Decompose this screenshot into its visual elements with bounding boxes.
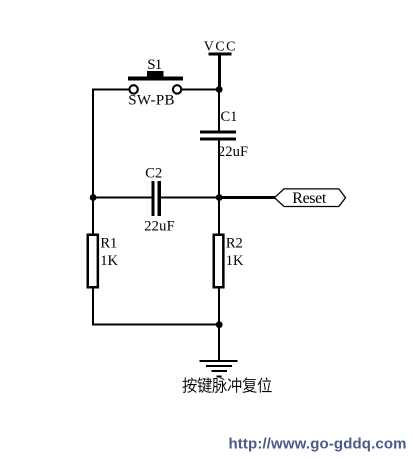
svg-text:SW-PB: SW-PB — [128, 93, 174, 109]
svg-text:R2: R2 — [226, 235, 243, 251]
wire switch right to VCC node — [182, 89, 221, 91]
switch S1 left terminal — [129, 85, 137, 93]
junction node at VCC/switch — [216, 86, 223, 93]
svg-text:22uF: 22uF — [144, 219, 175, 235]
caption 按键脉冲复位 — [182, 377, 271, 393]
svg-text:VCC: VCC — [204, 40, 236, 55]
svg-text:C1: C1 — [221, 109, 238, 125]
wire left vertical upper — [92, 89, 94, 199]
wire R2 bottom — [218, 289, 220, 326]
switch S1 right terminal — [173, 85, 181, 93]
capacitor C1 top plate — [200, 130, 236, 133]
wire R1 bottom — [92, 289, 94, 326]
svg-text:Reset: Reset — [292, 190, 327, 207]
wire node to Reset label — [220, 196, 275, 199]
switch S1 actuator stem — [147, 71, 164, 77]
ground bar 4 — [216, 375, 221, 377]
svg-text:C2: C2 — [145, 165, 162, 181]
junction node right/C2/Reset — [216, 194, 223, 201]
power symbol VCC bar — [209, 52, 232, 55]
ground bar 1 — [200, 360, 238, 362]
switch S1 actuator bar — [128, 77, 183, 81]
capacitor C2 right plate — [158, 181, 161, 216]
svg-text:22uF: 22uF — [218, 144, 248, 160]
junction node bottom/ground — [216, 321, 223, 328]
ground bar 2 — [206, 365, 232, 367]
wire bottom horizontal — [92, 324, 220, 326]
capacitor C2 left plate — [151, 181, 154, 216]
resistor R1 body — [88, 235, 98, 288]
svg-text:http://www.go-gddq.com: http://www.go-gddq.com — [229, 436, 407, 453]
wire VCC stem — [218, 56, 221, 90]
junction node left/C2 — [90, 194, 97, 201]
wire C2 left — [93, 197, 152, 199]
capacitor C1 bottom plate — [200, 138, 236, 141]
resistor R2 body — [214, 235, 224, 288]
svg-text:R1: R1 — [100, 235, 117, 251]
wire node to R1 top — [92, 198, 94, 234]
wire node to R2 top — [218, 198, 220, 234]
svg-text:1K: 1K — [100, 253, 118, 269]
wire ground stem — [218, 326, 220, 361]
wire C2 right — [161, 197, 219, 199]
wire VCC node to C1 top — [218, 90, 220, 131]
net label Reset flag — [275, 189, 346, 207]
svg-text:S1: S1 — [147, 57, 162, 73]
svg-text:1K: 1K — [226, 253, 244, 269]
ground bar 3 — [211, 370, 227, 372]
wire C1 bottom to node — [218, 141, 220, 198]
wire switch left to corner — [92, 89, 129, 91]
